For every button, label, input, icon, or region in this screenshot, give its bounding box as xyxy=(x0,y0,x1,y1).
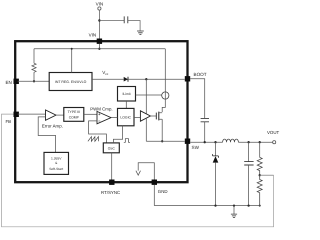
wire input cap to ground xyxy=(128,21,140,31)
resistor R2 bottom divider xyxy=(257,175,262,205)
svg-text:LOGIC: LOGIC xyxy=(120,115,131,119)
svg-text:INT REG. EN/UVLO: INT REG. EN/UVLO xyxy=(55,80,87,84)
svg-text:PWM Cmp.: PWM Cmp. xyxy=(90,106,112,111)
svg-text:RT/SYNC: RT/SYNC xyxy=(101,190,120,195)
wire SW to diode xyxy=(215,142,217,156)
wire BOOT to driver xyxy=(145,79,147,113)
clock pulse icon xyxy=(124,139,130,143)
junction driver supply xyxy=(145,78,147,80)
svg-text:VIN: VIN xyxy=(89,32,97,37)
wire ramp to PWM comparator xyxy=(89,121,107,143)
wire ground rail xyxy=(154,205,260,207)
wire current sense to FET drain xyxy=(162,99,165,112)
wire FB to error amp xyxy=(18,113,46,115)
wire FET source to SW xyxy=(161,119,163,141)
ground (input) xyxy=(137,31,144,35)
capacitor CIN xyxy=(124,16,128,23)
pin BOOT xyxy=(185,76,190,81)
terminal VIN xyxy=(98,7,101,10)
block 1.265V soft-start xyxy=(44,152,69,174)
current sense circle xyxy=(162,92,169,99)
wire driver to gate xyxy=(150,115,156,117)
wire diode anode to ground rail xyxy=(215,163,217,206)
wire diode to BOOT pin xyxy=(128,78,185,80)
ground internal arrow head xyxy=(136,171,141,176)
block INT REG EN/UVLO xyxy=(49,73,92,91)
block LOGIC xyxy=(118,108,135,125)
ground internal arrow wire xyxy=(138,163,154,180)
wire type III to PWM comparator xyxy=(84,113,97,115)
capacitor COUT xyxy=(244,162,253,165)
svg-text:GND: GND xyxy=(158,189,168,194)
junction output cap at VOUT xyxy=(247,141,249,143)
terminal VOUT xyxy=(273,141,276,144)
wire internal VIN rail xyxy=(34,48,165,50)
wire VOUT to divider xyxy=(259,142,261,157)
wire bootstrap cap to SW xyxy=(204,122,206,142)
wire ref to error amp xyxy=(38,117,55,152)
ground (output) xyxy=(233,206,235,214)
pin EN xyxy=(14,79,19,84)
resistor R1 top divider xyxy=(257,157,262,175)
capacitor bootstrap xyxy=(201,118,209,121)
svg-text:SW: SW xyxy=(192,145,200,150)
IC U1 outline xyxy=(15,41,187,182)
wire error amp to type III xyxy=(56,114,64,116)
junction divider at VOUT xyxy=(259,141,261,143)
svg-text:VOUT: VOUT xyxy=(267,130,280,135)
svg-text:OSC: OSC xyxy=(108,146,116,150)
resistor EN pull-up xyxy=(32,63,36,72)
junction ground symbol xyxy=(233,204,235,206)
wire EN pin to INT REG block xyxy=(18,80,50,82)
wire INT REG to rail xyxy=(71,49,73,73)
wire LOGIC to driver xyxy=(134,117,140,119)
svg-text:FB: FB xyxy=(6,119,12,124)
wire Vcc output xyxy=(92,78,124,80)
junction diode at SW xyxy=(214,141,216,143)
junction FB tap xyxy=(259,174,261,176)
junction cap ground xyxy=(247,204,249,206)
svg-text:BOOT: BOOT xyxy=(194,72,207,77)
wire output cap to ground rail xyxy=(248,165,250,206)
wire BOOT to bootstrap cap xyxy=(190,79,205,119)
junction EN node xyxy=(33,80,35,82)
op-amp error amplifier xyxy=(46,110,57,120)
wire VIN pin to internal rail xyxy=(98,44,100,49)
svg-text:Soft-Start: Soft-Start xyxy=(49,167,63,171)
pin FB xyxy=(14,112,19,117)
pin GND xyxy=(152,180,157,185)
svg-text:TYPE III: TYPE III xyxy=(67,110,80,114)
wire SW internal xyxy=(146,140,185,142)
block OSC xyxy=(103,143,119,153)
block ILimit xyxy=(118,87,136,102)
wire OSC clock to LOGIC xyxy=(113,126,122,143)
wire feedback loop xyxy=(260,174,274,176)
svg-text:COMP: COMP xyxy=(69,115,80,119)
driver buffer xyxy=(140,111,150,121)
inductor L1 xyxy=(223,139,239,142)
junction diode ground xyxy=(214,204,216,206)
svg-text:Error Amp.: Error Amp. xyxy=(42,124,63,129)
wire driver bottom to SW xyxy=(145,118,147,141)
wire rail to current sense xyxy=(164,49,166,92)
wire GND pin to ground rail xyxy=(153,185,155,206)
wire to input capacitor xyxy=(99,20,124,22)
svg-text:ILimit: ILimit xyxy=(122,92,130,96)
svg-text:VIN: VIN xyxy=(96,2,104,7)
pin SW xyxy=(185,139,190,144)
diode catch schottky xyxy=(213,154,219,158)
junction FET source SW xyxy=(161,140,163,142)
pin VIN xyxy=(97,39,102,44)
comparator PWM xyxy=(97,111,111,123)
diode Vcc-BOOT xyxy=(124,77,128,82)
wire ILimit sense xyxy=(136,94,162,96)
junction input cap tap xyxy=(98,19,100,21)
wire PWM comparator to LOGIC xyxy=(111,117,118,119)
svg-text:EN: EN xyxy=(6,80,12,85)
junction INT REG rail xyxy=(71,48,73,50)
junction bootstrap at SW xyxy=(204,141,206,143)
wire resistor to EN node xyxy=(33,72,35,81)
transistor high-side FET xyxy=(155,113,157,120)
wire ILimit to LOGIC xyxy=(125,101,127,108)
wire rail to pull-up resistor xyxy=(33,49,35,63)
wire OSC to RT/SYNC pin xyxy=(111,153,113,180)
pin RT/SYNC xyxy=(109,180,114,185)
wire VOUT to output cap xyxy=(248,142,250,161)
wire SW node xyxy=(190,141,272,143)
svg-text:1.265V: 1.265V xyxy=(51,156,62,160)
block TYPE III COMP xyxy=(64,108,84,122)
wire VIN stem xyxy=(98,10,100,38)
junction VIN rail xyxy=(98,48,100,50)
sawtooth ramp icon xyxy=(88,137,99,142)
junction R2 ground xyxy=(259,205,261,207)
